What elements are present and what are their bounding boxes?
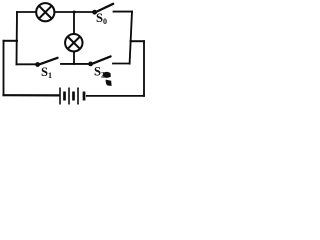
wire right jog [131, 40, 145, 42]
wire top bus right [114, 11, 133, 13]
svg-text:S0: S0 [96, 11, 107, 26]
wire right inner vertical [130, 12, 132, 64]
wire right outer vertical [143, 41, 145, 96]
lamp L2 [65, 34, 82, 51]
wire middle bus right [113, 63, 130, 65]
wire left inner vertical [16, 12, 19, 64]
wire top bus left [17, 11, 93, 13]
switch S0 [92, 4, 113, 15]
node junction top bus / L2 lead [73, 11, 76, 14]
lamp L1 [36, 3, 54, 21]
battery B1 [60, 88, 84, 105]
wire bottom right [87, 95, 144, 97]
ink smudge below S2 [103, 72, 112, 86]
switch S2 [88, 56, 110, 66]
wire left jog [4, 40, 18, 42]
wire lamp L2 top lead [73, 12, 75, 35]
wire lamp L2 bottom lead [73, 51, 75, 64]
wire bottom left [4, 94, 59, 96]
wire middle bus center [61, 63, 89, 65]
svg-text:S1: S1 [41, 65, 52, 80]
switch S1 [35, 58, 57, 67]
svg-text:S2: S2 [94, 65, 105, 80]
wire left outer vertical [3, 41, 5, 95]
wire middle bus left [17, 63, 36, 65]
